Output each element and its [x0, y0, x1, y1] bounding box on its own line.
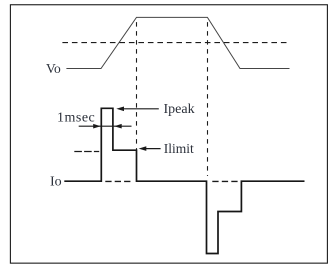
- 1msec right-pointing arrowhead: [93, 124, 101, 129]
- Ipeak arrow: [116, 107, 159, 112]
- threshold dashed horizontal line: [62, 42, 288, 44]
- 1msec measure line: [79, 125, 132, 127]
- svg-text:Ilimit: Ilimit: [164, 141, 194, 156]
- Ilimit arrow: [139, 146, 161, 151]
- svg-text:Io: Io: [50, 175, 62, 190]
- svg-text:1msec: 1msec: [57, 110, 95, 125]
- Io waveform: [64, 108, 304, 253]
- right vertical dashed line: [207, 18, 209, 176]
- svg-text:Ipeak: Ipeak: [164, 102, 195, 117]
- svg-text:Vo: Vo: [46, 61, 61, 76]
- Ilimit level dashed extension left of pulse: [74, 151, 99, 153]
- Vo waveform trapezoid: [66, 17, 289, 68]
- dashed baseline under Ipeak pulse: [105, 180, 132, 182]
- 1msec left-pointing arrowhead: [114, 124, 122, 129]
- dashed baseline across negative pulse: [212, 180, 240, 182]
- left vertical dashed line: [136, 18, 138, 150]
